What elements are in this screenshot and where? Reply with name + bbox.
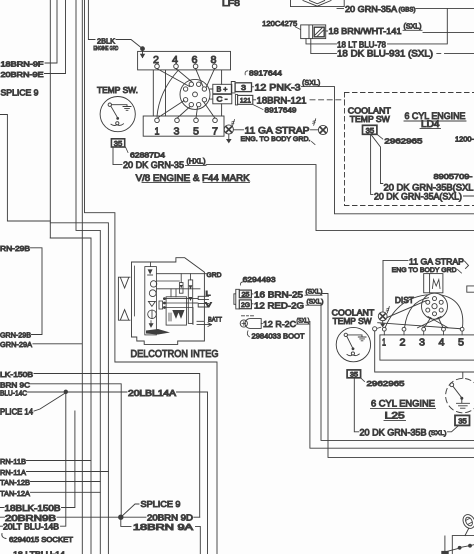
wire 18BRN-9F bbox=[45, 0, 57, 63]
arrow down bbox=[149, 321, 153, 327]
plug wires L25 bbox=[385, 295, 429, 328]
connector 2G bbox=[239, 300, 251, 309]
wire 18BLK-150B bbox=[0, 411, 75, 508]
svg-text:18BRN-9F: 18BRN-9F bbox=[1, 60, 45, 69]
wire RN-11A bbox=[27, 471, 109, 473]
svg-text:SPLICE 9: SPLICE 9 bbox=[1, 89, 40, 98]
wire BRN 9C to splice 9 bbox=[31, 384, 122, 517]
terminal box L25 bbox=[380, 335, 474, 360]
svg-text:2962965: 2962965 bbox=[367, 379, 405, 388]
svg-text:L25: L25 bbox=[385, 411, 405, 421]
svg-text:20 GRN-35A: 20 GRN-35A bbox=[345, 4, 398, 14]
alternator pulley bbox=[118, 277, 130, 320]
tick 62887D4 bbox=[126, 147, 129, 153]
connector 25 bbox=[239, 290, 251, 298]
svg-text:5: 5 bbox=[458, 337, 464, 348]
diode top bbox=[148, 269, 153, 274]
connector 121 bbox=[238, 95, 253, 104]
pointer tick bbox=[458, 270, 462, 274]
svg-text:LD4: LD4 bbox=[421, 119, 440, 129]
alternator case outline bbox=[132, 258, 205, 345]
temp switch circle bbox=[100, 97, 135, 132]
svg-text:20 DK GRN-35B(SXL: 20 DK GRN-35B(SXL bbox=[384, 183, 474, 193]
svg-text:(SXL): (SXL) bbox=[404, 24, 422, 31]
wire TAN-12B bbox=[31, 481, 101, 483]
wire splice14 vertical bbox=[61, 392, 66, 526]
svg-text:(SXL): (SXL) bbox=[297, 317, 310, 324]
svg-text:RN-29B: RN-29B bbox=[0, 244, 30, 253]
switch pivot bbox=[108, 103, 111, 106]
svg-text:GRN-29A: GRN-29A bbox=[0, 340, 32, 349]
svg-text:12 RED-2G: 12 RED-2G bbox=[254, 301, 304, 311]
wire 12 R-2C bbox=[261, 322, 474, 449]
svg-text:SPLICE 9: SPLICE 9 bbox=[141, 500, 182, 509]
svg-text:8905709-: 8905709- bbox=[434, 172, 474, 181]
ground arrow dist bbox=[380, 324, 385, 328]
contact triangle bbox=[148, 301, 155, 306]
svg-text:62887D4: 62887D4 bbox=[130, 150, 165, 159]
svg-text:TEMP SW.: TEMP SW. bbox=[97, 86, 138, 95]
internal wire grd bbox=[156, 273, 206, 275]
tick 120C4275 bbox=[296, 27, 301, 30]
svg-text:4: 4 bbox=[439, 337, 445, 348]
strap routing around box bbox=[375, 331, 474, 372]
switch internal ground bbox=[112, 105, 132, 111]
svg-text:2962965: 2962965 bbox=[384, 137, 422, 146]
wire 18BRN 9A right bbox=[196, 526, 201, 554]
connector box top with diamond bbox=[291, 0, 345, 7]
ground lug right of strap bbox=[318, 125, 327, 134]
svg-text:BATT: BATT bbox=[208, 316, 222, 323]
wire BLU-14C / 20LBL14A bbox=[28, 392, 208, 554]
svg-text:V: V bbox=[206, 302, 213, 309]
svg-text:(GBS): (GBS) bbox=[399, 7, 416, 14]
strap ring terminal bbox=[373, 327, 377, 331]
svg-text:GRN-29B: GRN-29B bbox=[0, 331, 31, 340]
bottom terminal circles bbox=[155, 118, 160, 123]
splice 9 dot bbox=[118, 515, 123, 520]
splice 9 pointer bbox=[121, 504, 139, 517]
svg-text:20LT BLU-14B: 20LT BLU-14B bbox=[3, 522, 59, 531]
svg-text:35: 35 bbox=[114, 139, 123, 148]
gauge stub bbox=[462, 372, 464, 378]
svg-text:2984033 BOOT: 2984033 BOOT bbox=[252, 332, 306, 341]
svg-text:7: 7 bbox=[212, 126, 218, 138]
corner switch contacts bbox=[458, 546, 462, 550]
L terminal tab bbox=[198, 296, 208, 299]
wire branch to x108 bbox=[50, 223, 108, 554]
tick 6294493 bbox=[240, 282, 243, 285]
svg-text:V/8 ENGINE & F44 MARK: V/8 ENGINE & F44 MARK bbox=[136, 173, 250, 183]
wire 12 PNK-3 bbox=[252, 87, 474, 214]
wire 18BRN-121 dashed bbox=[310, 99, 345, 101]
diode rect right bbox=[188, 280, 192, 324]
svg-text:20BRN-9E: 20BRN-9E bbox=[1, 70, 44, 79]
plug wire sweep bbox=[157, 71, 178, 117]
svg-text:(HXL): (HXL) bbox=[187, 159, 206, 166]
svg-text:LF8: LF8 bbox=[222, 0, 240, 8]
regulator column bbox=[145, 267, 157, 335]
connector 25/2G bracket bbox=[234, 289, 239, 309]
tick 2962965 L25 bbox=[361, 378, 365, 382]
wire 11 GA STRAP bbox=[234, 129, 318, 131]
ground arrow below lug bbox=[228, 134, 230, 139]
connector frame sides bbox=[153, 70, 221, 116]
svg-text:6294493: 6294493 bbox=[243, 275, 276, 284]
brush wedge bbox=[146, 329, 170, 335]
svg-text:3: 3 bbox=[241, 83, 246, 92]
svg-text:BLU-14C: BLU-14C bbox=[0, 389, 28, 398]
svg-text:20LBL14A: 20LBL14A bbox=[128, 389, 177, 398]
strap size mark dist bbox=[386, 307, 389, 314]
wire 20 DK GRN-35A bbox=[371, 134, 474, 196]
tick 8917649 bbox=[254, 105, 264, 110]
svg-text:8917649: 8917649 bbox=[265, 106, 297, 115]
svg-text:35: 35 bbox=[458, 416, 467, 425]
svg-text:3: 3 bbox=[419, 337, 425, 348]
junction dots bbox=[163, 297, 166, 300]
svg-text:C -: C - bbox=[217, 97, 229, 104]
wire 20BRN9B to splice bbox=[0, 516, 146, 518]
tick 2984033 bbox=[247, 331, 249, 337]
wire 16 BRN-25 bbox=[251, 294, 474, 458]
corner wires bbox=[445, 536, 474, 554]
wire 12 RED-2G bbox=[251, 304, 474, 441]
svg-text:18 BRN/WHT-141: 18 BRN/WHT-141 bbox=[329, 26, 402, 36]
ground dot 2BLK bbox=[140, 46, 145, 51]
ignition coil box bbox=[424, 274, 443, 293]
svg-text:11 GA STRAP: 11 GA STRAP bbox=[245, 125, 310, 135]
diode rect mid bbox=[179, 283, 183, 294]
wire 20 DK GRN-35B L25 bbox=[354, 378, 458, 432]
corner terminal block bbox=[441, 551, 448, 554]
switch contact bbox=[111, 124, 124, 126]
V8 bottom terminal box bbox=[143, 116, 224, 136]
connector 35 LD4 bbox=[363, 125, 377, 134]
svg-text:16 BRN-25: 16 BRN-25 bbox=[254, 290, 303, 300]
connector 3 tab bbox=[231, 82, 235, 93]
wire GRN-29A vertical bbox=[33, 0, 82, 554]
small resistors bbox=[159, 301, 163, 309]
svg-text:121: 121 bbox=[240, 97, 251, 104]
wire 20BRN-9E bbox=[45, 0, 66, 74]
svg-text:RN-11A: RN-11A bbox=[0, 468, 26, 477]
B+ terminal box bbox=[210, 89, 213, 99]
strap size mark left bbox=[231, 120, 234, 127]
svg-text:GRD: GRD bbox=[207, 272, 222, 279]
wire 20BRN 9D elbow bbox=[194, 516, 200, 518]
svg-text:(SXL): (SXL) bbox=[302, 80, 320, 87]
wire 18BRN 9A elbow bbox=[121, 517, 131, 526]
svg-text:LK-150B: LK-150B bbox=[0, 370, 33, 379]
BATT terminal arrow bbox=[197, 321, 212, 326]
connector 120C4275 bbox=[301, 25, 326, 39]
gauge circle dashed bbox=[446, 378, 474, 412]
svg-text:12 R-2C: 12 R-2C bbox=[263, 319, 296, 329]
wire 18 DK BLU-931 bbox=[311, 39, 474, 54]
wire harness vertical A bbox=[49, 0, 51, 238]
strap hook bbox=[465, 261, 469, 269]
svg-text:18BLK-150B: 18BLK-150B bbox=[5, 504, 61, 513]
C- terminal box bbox=[213, 94, 232, 103]
ground lug dist bbox=[378, 312, 387, 321]
svg-text:TAN-12B: TAN-12B bbox=[0, 478, 30, 487]
corner grommet bbox=[461, 513, 474, 531]
svg-text:(SXL): (SXL) bbox=[306, 289, 323, 296]
svg-text:1: 1 bbox=[382, 337, 386, 348]
svg-text:12 PNK-3: 12 PNK-3 bbox=[255, 83, 301, 93]
internal bus wires bbox=[156, 289, 200, 325]
svg-text:L: L bbox=[206, 291, 211, 298]
wire RN-11B bbox=[27, 461, 92, 554]
svg-text:TEMP SW: TEMP SW bbox=[350, 115, 390, 124]
label no 12 tiny bbox=[242, 315, 254, 317]
V8 distributor top terminal box bbox=[138, 51, 231, 70]
connector 35 gauge bbox=[455, 415, 470, 425]
svg-text:DIST: DIST bbox=[395, 295, 414, 305]
pointer tick bbox=[312, 142, 316, 145]
svg-text:6 CYL ENGINE: 6 CYL ENGINE bbox=[371, 399, 435, 409]
switch lever bbox=[111, 106, 118, 117]
wire TAN-12A bbox=[31, 492, 101, 554]
plug wires bottom bbox=[157, 101, 215, 119]
boot connector oval bbox=[245, 319, 261, 329]
stator box bbox=[166, 297, 186, 325]
svg-text:20BRN 9D: 20BRN 9D bbox=[147, 514, 193, 523]
wire 20 DK GRN-35 bbox=[113, 147, 474, 231]
fan terminals bbox=[382, 327, 386, 331]
svg-text:RN-11B: RN-11B bbox=[0, 457, 26, 466]
wire LK-150B to 20BRN 9D bbox=[34, 374, 200, 518]
svg-text:18 DK BLU-931 (SXL): 18 DK BLU-931 (SXL) bbox=[337, 49, 433, 59]
top terminal circles bbox=[155, 64, 160, 69]
svg-text:(SXL): (SXL) bbox=[307, 299, 324, 306]
svg-text:PLICE 14: PLICE 14 bbox=[0, 408, 34, 417]
plug wires top bbox=[157, 69, 215, 88]
distributor cap V8 bbox=[180, 79, 210, 109]
svg-text:20 DK GRN-35A(SXL): 20 DK GRN-35A(SXL) bbox=[374, 191, 462, 201]
strap wire down bbox=[382, 261, 384, 312]
svg-text:ENGINE GRD: ENGINE GRD bbox=[93, 46, 118, 52]
dashed box LD4 bbox=[345, 92, 474, 94]
svg-text:DELCOTRON INTEG: DELCOTRON INTEG bbox=[131, 349, 219, 360]
svg-text:5: 5 bbox=[193, 126, 199, 138]
svg-text:(SXL): (SXL) bbox=[429, 430, 447, 437]
svg-text:2G: 2G bbox=[241, 302, 250, 309]
tick 8917644 bbox=[245, 71, 248, 75]
rotor circle 2 bbox=[149, 290, 156, 297]
svg-text:20 DK GRN-35B: 20 DK GRN-35B bbox=[360, 428, 427, 438]
wire 2BLK engine ground bbox=[88, 0, 141, 48]
splice 14 dot bbox=[64, 390, 68, 394]
svg-text:2BLK: 2BLK bbox=[97, 37, 115, 46]
splice 14 pointer bbox=[34, 394, 65, 412]
V terminal tab bbox=[198, 304, 208, 307]
tick 2962965 LD4 bbox=[377, 134, 383, 139]
svg-text:18 LTBLU-14: 18 LTBLU-14 bbox=[13, 550, 65, 554]
connector 35 L25 bbox=[347, 370, 361, 378]
svg-text:1200-: 1200- bbox=[455, 137, 474, 144]
wire RN-29B to GRN-29B bbox=[31, 248, 43, 335]
svg-text:8917644: 8917644 bbox=[249, 68, 282, 77]
svg-text:120C4275: 120C4275 bbox=[262, 19, 297, 28]
svg-text:TEMP SW: TEMP SW bbox=[333, 317, 372, 326]
svg-text:35: 35 bbox=[366, 126, 375, 135]
coolant temp switch circle L25 bbox=[336, 327, 370, 361]
wire harness vertical B bbox=[76, 0, 100, 492]
svg-text:3: 3 bbox=[174, 126, 180, 138]
svg-text:B +: B + bbox=[217, 87, 228, 94]
strap size mark right bbox=[313, 119, 316, 126]
svg-text:ENG. TO BODY GRD.: ENG. TO BODY GRD. bbox=[241, 136, 311, 143]
svg-text:11 GA STRAP: 11 GA STRAP bbox=[409, 257, 464, 267]
wire elbow from left edge bbox=[0, 115, 50, 222]
wire 18 BRN/WHT-141 bbox=[326, 31, 474, 33]
connector 35 temp sw bbox=[111, 139, 124, 147]
svg-text:25: 25 bbox=[242, 292, 250, 299]
wire 11 GA STRAP dist bbox=[383, 260, 408, 262]
connector 121 tab bbox=[235, 95, 237, 105]
svg-text:1: 1 bbox=[155, 126, 160, 138]
meter circle bbox=[148, 310, 157, 319]
wire 20 GRN-35A top bbox=[337, 8, 474, 10]
wire harness vertical C long route bbox=[85, 0, 218, 554]
tick 6294015 bbox=[2, 534, 6, 539]
wire 20 DK GRN-35B bbox=[372, 135, 383, 183]
rotor circle 1 bbox=[150, 281, 156, 287]
distributor cap L25 bbox=[422, 293, 448, 319]
svg-text:20 DK GRN-35: 20 DK GRN-35 bbox=[123, 160, 184, 170]
wire branch to x91 bbox=[50, 238, 91, 461]
svg-text:18BRN-121: 18BRN-121 bbox=[257, 95, 307, 105]
cap terminals bbox=[183, 87, 187, 91]
connector 3 bbox=[235, 83, 251, 92]
ground lug left of strap bbox=[224, 125, 233, 134]
svg-text:2: 2 bbox=[400, 337, 406, 348]
small box right edge bbox=[467, 286, 474, 292]
stator windings bbox=[172, 310, 184, 319]
ground arrow in box bbox=[142, 51, 144, 57]
svg-text:18BRN 9A: 18BRN 9A bbox=[133, 523, 194, 532]
svg-text:6294015 SOCKET: 6294015 SOCKET bbox=[9, 537, 74, 544]
wire 18BRN-121 bbox=[253, 99, 256, 101]
wire 18 LT BLU-78 bbox=[306, 9, 447, 44]
svg-text:TAN-12A: TAN-12A bbox=[0, 489, 30, 498]
